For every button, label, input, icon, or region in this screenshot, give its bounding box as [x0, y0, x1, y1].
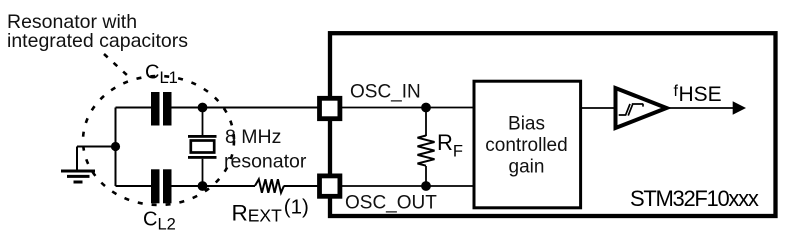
junction: node crystal/OSC_OUT — [198, 181, 208, 191]
svg-text:REXT(1): REXT(1) — [232, 196, 309, 226]
resistor REXT — [255, 179, 284, 193]
wire: schmitt output — [667, 107, 741, 109]
capacitor CL2 — [151, 169, 172, 203]
dashed outline: resonator module boundary — [83, 76, 234, 205]
capacitor CL1 — [151, 92, 172, 126]
svg-text:STM32F10xxx: STM32F10xxx — [630, 186, 759, 211]
label: Bias controlled gain — [485, 114, 567, 178]
junction: ground node — [111, 142, 120, 151]
crystal X1 : 8 MHz resonator — [188, 108, 217, 187]
wire: bottom rail — [116, 185, 319, 187]
arrowhead: fHSE output — [733, 101, 746, 114]
svg-text:controlled: controlled — [485, 135, 567, 156]
annotation: Resonator with integrated capacitors — [7, 11, 188, 52]
schmitt trigger buffer — [616, 88, 667, 128]
svg-text:HSE: HSE — [679, 83, 722, 106]
leader: annotation to resonator outline — [104, 54, 128, 76]
svg-text:OSC_IN: OSC_IN — [350, 82, 421, 103]
resistor RF — [418, 108, 435, 187]
ground — [61, 147, 95, 183]
svg-text:RF: RF — [437, 130, 463, 161]
svg-text:Bias: Bias — [508, 114, 545, 135]
wire: ground tap — [77, 146, 116, 148]
bias controlled gain block — [474, 81, 581, 208]
junction: RF bottom node — [421, 181, 431, 191]
wire: OSC_OUT internal rail — [342, 185, 474, 187]
label: 8 MHz resonator — [224, 126, 307, 173]
svg-text:CL2: CL2 — [143, 209, 176, 234]
svg-text:OSC_OUT: OSC_OUT — [345, 193, 437, 214]
wire: left vertical rail — [115, 108, 117, 187]
wire: top rail — [116, 107, 319, 109]
junction: RF top node — [421, 103, 431, 113]
pin OSC_OUT — [320, 176, 340, 196]
svg-text:CL1: CL1 — [145, 62, 178, 88]
svg-text:8 MHz: 8 MHz — [225, 126, 281, 148]
junction: node crystal/OSC_IN — [198, 103, 208, 113]
svg-text:resonator: resonator — [224, 151, 307, 173]
wire: OSC_IN internal rail — [342, 107, 474, 109]
svg-text:gain: gain — [509, 157, 545, 178]
STM32F10xxx box — [330, 33, 776, 216]
pin OSC_IN — [320, 98, 340, 118]
svg-text:integrated capacitors: integrated capacitors — [7, 30, 188, 52]
wire: bias block to schmitt — [581, 107, 614, 109]
